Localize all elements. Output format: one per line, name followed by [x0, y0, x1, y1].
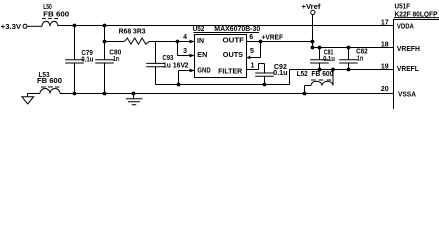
svg-text:VREFL: VREFL	[397, 64, 419, 73]
svg-text:1n: 1n	[113, 56, 119, 63]
svg-text:1n: 1n	[357, 55, 363, 62]
svg-text:+Vref: +Vref	[302, 4, 322, 11]
svg-text:MAX6070B-30: MAX6070B-30	[214, 26, 260, 33]
svg-text:VREFH: VREFH	[397, 44, 420, 53]
svg-text:+3.3V: +3.3V	[1, 24, 22, 31]
svg-text:5: 5	[250, 48, 254, 55]
svg-text:K22F 80LQFP: K22F 80LQFP	[395, 11, 438, 18]
svg-text:1u 16V: 1u 16V	[163, 62, 185, 69]
svg-text:OUTF: OUTF	[223, 36, 245, 45]
svg-text:L52: L52	[297, 71, 308, 78]
svg-text:1: 1	[251, 62, 255, 69]
svg-text:U51F: U51F	[395, 4, 411, 11]
svg-text:FB 600: FB 600	[43, 11, 69, 18]
svg-text:IN: IN	[197, 36, 204, 45]
svg-text:19: 19	[381, 64, 389, 71]
svg-text:FB 600: FB 600	[311, 71, 333, 78]
svg-text:2: 2	[184, 63, 188, 70]
svg-text:U52: U52	[193, 26, 205, 33]
svg-text:6: 6	[249, 34, 253, 41]
svg-text:L50: L50	[43, 4, 52, 11]
svg-text:3: 3	[183, 48, 187, 55]
svg-text:EN: EN	[197, 50, 207, 59]
svg-text:17: 17	[381, 20, 389, 27]
svg-text:FB 600: FB 600	[37, 78, 62, 85]
svg-text:0.1u: 0.1u	[273, 70, 288, 77]
svg-text:0.1u: 0.1u	[323, 56, 335, 63]
svg-text:4: 4	[183, 34, 187, 41]
svg-text:OUTS: OUTS	[223, 50, 243, 59]
svg-text:20: 20	[381, 86, 389, 93]
svg-text:C93: C93	[162, 55, 173, 62]
svg-text:+VREF: +VREF	[262, 34, 284, 41]
svg-text:GND: GND	[197, 65, 211, 74]
svg-text:FILTER: FILTER	[218, 66, 243, 75]
svg-text:0.1u: 0.1u	[81, 56, 93, 63]
svg-text:VSSA: VSSA	[398, 89, 417, 98]
svg-text:R68 3R3: R68 3R3	[119, 28, 146, 35]
svg-text:VDDA: VDDA	[397, 21, 414, 30]
svg-text:18: 18	[381, 42, 389, 49]
